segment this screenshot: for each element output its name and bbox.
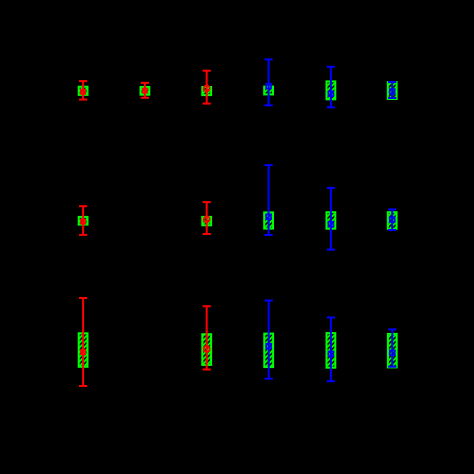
lower staple group6 row1 (blue) [388,97,396,99]
box group6 row2 (blue): green hatched IQR box [388,212,397,229]
median marker group3 row2 (red) [204,216,210,222]
whisker line group2 row1 (red) [144,83,146,98]
boxplot group1 row2 (red) [79,206,88,235]
median marker group4 row3 (blue) [266,344,271,349]
whisker line group3 row2 (red) [206,202,208,234]
whisker line group6 row1 (blue) [391,82,393,98]
lower staple group3 row1 (red) [203,103,211,105]
upper staple group4 row1 (blue) [265,58,273,60]
boxplot group3 row2 (red) [202,202,211,234]
box group2 row1 (red): green hatched IQR box [141,87,150,95]
median marker group1 row3 (red) [81,350,85,354]
box group4 row1 (blue): green hatched IQR box [264,87,273,95]
upper staple group4 row2 (blue) [265,164,273,166]
whisker line group4 row2 (blue) [268,165,270,235]
boxplot group1 row1 (red) [79,81,88,100]
lower staple group5 row1 (blue) [327,106,335,108]
lower staple group5 row2 (blue) [327,249,335,251]
whisker line group3 row3 (red) [206,306,208,369]
box group6 row3 (blue): green hatched IQR box [388,334,397,368]
box group1 row1 (red): green hatched IQR box [79,87,88,95]
whisker line group4 row3 (blue) [268,301,270,379]
lower staple group1 row3 (red) [79,385,87,387]
median marker group1 row2 (red) [81,220,85,224]
boxplot group4 row2 (blue) [264,165,273,235]
median marker group5 row3 (blue) [329,352,334,357]
box group4 row2 (blue): green hatched IQR box [264,212,273,228]
upper staple group5 row1 (blue) [327,66,335,68]
upper staple group3 row2 (red) [203,201,211,203]
box group3 row2 (red): green hatched IQR box [202,217,211,225]
whisker line group3 row1 (red) [206,71,208,104]
lower staple group1 row2 (red) [79,234,87,236]
median marker group3 row1 (red) [204,86,210,92]
boxplot group6 row1 (blue) [388,82,397,99]
upper staple group1 row3 (red) [79,297,87,299]
median marker group6 row1 (blue) [390,89,395,94]
boxplot group5 row1 (blue) [327,67,336,108]
upper staple group6 row2 (blue) [388,208,396,210]
boxplot group5 row2 (blue) [327,188,336,250]
whisker line group6 row3 (blue) [391,329,393,366]
boxplot group2 row1 (red) [141,83,150,98]
box group5 row2 (blue): green hatched IQR box [327,212,336,229]
boxplot group1 row3 (red) [79,298,88,386]
lower staple group6 row3 (blue) [388,366,396,368]
upper staple group3 row3 (red) [203,305,211,307]
median marker group4 row1 (blue) [266,84,271,89]
median marker group4 row2 (blue) [266,214,271,219]
boxplot group3 row3 (red) [202,306,211,369]
upper staple group5 row3 (blue) [327,317,335,319]
lower staple group3 row3 (red) [203,369,211,371]
lower staple group2 row1 (red) [141,97,149,99]
boxplot group4 row3 (blue) [264,301,273,379]
whisker line group1 row1 (red) [82,81,84,100]
upper staple group5 row2 (blue) [327,187,335,189]
median marker group5 row1 (blue) [329,91,334,96]
box group1 row3 (red): green hatched IQR box [79,333,88,367]
whisker line group5 row1 (blue) [330,67,332,108]
lower staple group4 row2 (blue) [265,234,273,236]
boxplot group4 row1 (blue) [264,59,273,105]
whisker line group4 row1 (blue) [268,59,270,105]
median marker group2 row1 (red) [143,89,147,93]
box group1 row2 (red): green hatched IQR box [79,217,88,225]
median marker group3 row3 (red) [204,346,210,352]
boxplot group6 row3 (blue) [388,329,397,367]
whisker line group6 row2 (blue) [391,209,393,230]
whisker line group5 row2 (blue) [330,188,332,250]
upper staple group2 row1 (red) [141,82,149,84]
median marker group6 row3 (blue) [390,350,395,355]
lower staple group4 row1 (blue) [265,104,273,106]
upper staple group6 row1 (blue) [388,81,396,83]
upper staple group6 row3 (blue) [388,328,396,330]
upper staple group1 row2 (red) [79,205,87,207]
whisker line group1 row3 (red) [82,298,84,386]
boxplot group6 row2 (blue) [388,209,397,230]
lower staple group3 row2 (red) [203,233,211,235]
lower staple group4 row3 (blue) [265,378,273,380]
lower staple group1 row1 (red) [79,99,87,101]
whisker line group5 row3 (blue) [330,318,332,382]
box group4 row3 (blue): green hatched IQR box [264,334,273,368]
box group5 row1 (blue): green hatched IQR box [327,81,336,99]
upper staple group4 row3 (blue) [265,300,273,302]
lower staple group5 row3 (blue) [327,380,335,382]
median marker group6 row2 (blue) [390,217,395,222]
upper staple group1 row1 (red) [79,80,87,82]
lower staple group6 row2 (blue) [388,229,396,231]
upper staple group3 row1 (red) [203,70,211,72]
boxplot group3 row1 (red) [202,71,211,104]
box group5 row3 (blue): green hatched IQR box [327,333,336,368]
box group3 row1 (red): green hatched IQR box [202,87,211,95]
box group3 row3 (red): green hatched IQR box [202,334,211,365]
median marker group5 row2 (blue) [329,222,334,227]
boxplot group5 row3 (blue) [327,318,336,382]
box group6 row1 (blue): green hatched IQR box [388,82,397,99]
median marker group1 row1 (red) [81,90,85,94]
whisker line group1 row2 (red) [82,206,84,235]
